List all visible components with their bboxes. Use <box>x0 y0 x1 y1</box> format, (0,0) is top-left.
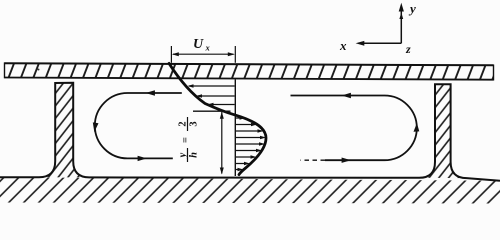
svg-text:z: z <box>405 42 411 56</box>
U dimension line with arrowheads <box>173 53 234 55</box>
y/h dimension top tick <box>193 110 231 112</box>
left streamline arrow (left cap, pointing down) <box>93 122 99 132</box>
x axis (pointing left) <box>358 42 401 44</box>
svg-text:y: y <box>408 1 416 16</box>
left streamline arrow (bottom, pointing right) <box>138 156 147 161</box>
y axis <box>400 7 402 43</box>
svg-text:=: = <box>181 137 192 143</box>
svg-text:3: 3 <box>189 121 200 126</box>
coordinate axes <box>339 1 416 56</box>
velocity profile zero line <box>234 80 236 177</box>
svg-text:U: U <box>193 37 204 52</box>
svg-text:y: y <box>177 152 188 159</box>
right rib (hatched) <box>419 84 467 178</box>
profile arrows below crossing (pointing right) <box>236 118 263 170</box>
svg-text:x: x <box>339 38 347 53</box>
velocity profile zero line (upper tick above wall) <box>234 46 236 63</box>
bottom wall (hatched strip) <box>0 177 500 203</box>
bottom wall / rib contour line <box>0 83 500 181</box>
right streamline arrow (top, pointing left) <box>342 93 351 98</box>
top wall (hatched sliding band) <box>5 62 494 80</box>
svg-text:2: 2 <box>177 121 188 126</box>
right streamline arrow (bottom, pointing right) <box>342 158 351 163</box>
label y/h = 2/3 (rotated) <box>177 117 199 162</box>
U dimension left tick <box>170 46 172 63</box>
velocity profile curve <box>169 63 266 174</box>
right recirculation streamline <box>291 96 417 161</box>
svg-text:x: x <box>205 43 211 53</box>
right streamline arrow (right cap, pointing up) <box>414 123 420 132</box>
left recirculation streamline <box>95 93 182 158</box>
profile arrows above crossing (pointing left) <box>189 86 235 105</box>
right streamline dashed tail <box>301 159 326 161</box>
y/h dimension vertical double arrow <box>221 112 223 174</box>
scan speck <box>38 69 40 71</box>
left rib (hatched) <box>39 83 89 178</box>
svg-text:h: h <box>189 152 200 158</box>
left streamline arrow (top, pointing left) <box>146 90 155 95</box>
